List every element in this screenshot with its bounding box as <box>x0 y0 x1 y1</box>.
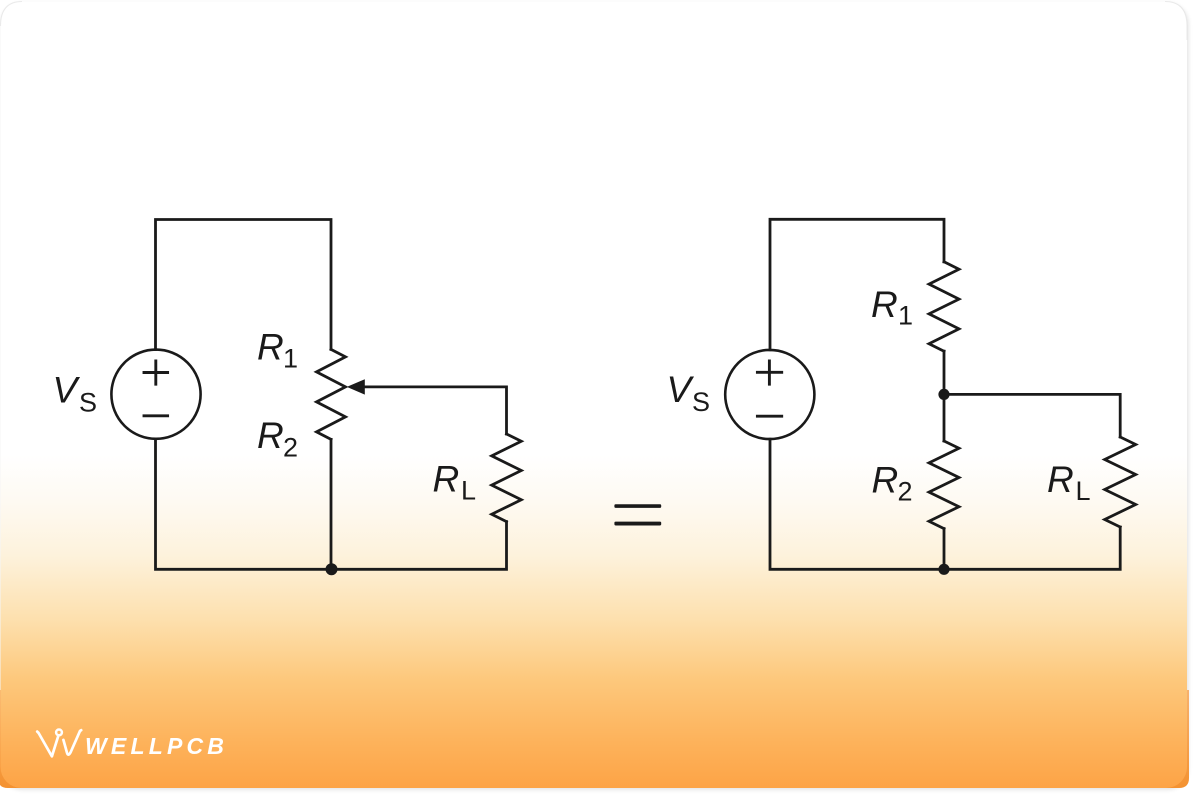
svg-text:R: R <box>872 460 899 501</box>
svg-text:S: S <box>692 387 710 417</box>
svg-text:L: L <box>1076 476 1091 506</box>
faint card corner outlines <box>1 2 1188 41</box>
svg-text:R: R <box>257 326 284 367</box>
under card (darker orange, peeks at bottom corners) <box>0 690 1189 788</box>
wire: wiper to RL <box>363 387 507 434</box>
svg-text:V: V <box>667 369 695 410</box>
svg-text:R: R <box>257 415 284 456</box>
svg-text:1: 1 <box>283 344 298 374</box>
resistor R1 right circuit <box>929 262 959 351</box>
svg-text:R: R <box>1047 459 1074 500</box>
resistor RL left circuit <box>492 434 522 522</box>
junction dot left circuit <box>326 563 338 575</box>
resistor R2 right circuit <box>929 441 959 529</box>
wellpcb logo icon W <box>37 730 81 757</box>
minus sign right source <box>757 415 781 418</box>
svg-text:R: R <box>433 459 460 500</box>
svg-text:WELLPCB: WELLPCB <box>85 733 228 759</box>
wire: R1 to junction node <box>943 351 946 441</box>
potentiometer R1/R2 zigzag left circuit <box>317 349 346 439</box>
voltage source V_S right circuit U2 <box>725 350 814 439</box>
resistor RL right circuit <box>1105 437 1136 527</box>
svg-text:R: R <box>871 284 898 325</box>
wire: right circuit left bottom <box>770 439 1120 569</box>
wire: pot bottom to bottom rail <box>330 439 333 569</box>
wire: node to RL right <box>944 394 1120 437</box>
wire: left circuit top <box>156 220 332 350</box>
svg-text:L: L <box>461 476 476 506</box>
node A junction dot (R1/R2/RL tap) <box>938 389 949 400</box>
plus sign left source <box>144 361 168 384</box>
minus sign left source <box>144 414 168 417</box>
plus sign right source <box>757 361 781 384</box>
wire: left circuit bottom left <box>156 439 507 569</box>
svg-text:V: V <box>53 370 81 411</box>
svg-text:2: 2 <box>283 433 298 463</box>
node B junction dot bottom rail <box>938 564 949 575</box>
voltage source V_S left circuit U1 <box>111 350 200 439</box>
svg-text:1: 1 <box>898 301 913 331</box>
equals sign between circuits <box>614 504 661 525</box>
wire: R2 to bottom rail <box>943 529 946 570</box>
svg-text:S: S <box>79 388 97 418</box>
wiper arrow head <box>347 379 365 394</box>
svg-text:2: 2 <box>898 476 913 506</box>
wire: right circuit top <box>770 219 944 350</box>
